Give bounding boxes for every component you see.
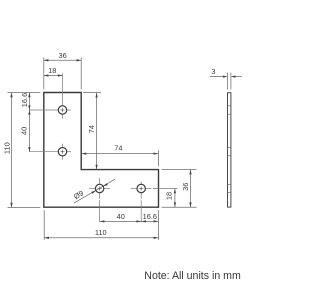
svg-text:16.6: 16.6 <box>143 212 157 221</box>
plate outline L-shape front view <box>44 93 159 208</box>
svg-text:110: 110 <box>95 228 107 237</box>
svg-text:18: 18 <box>165 192 174 200</box>
svg-text:36: 36 <box>181 183 190 191</box>
hole H2 center lines <box>29 144 71 160</box>
hole H3 center lines <box>89 178 110 222</box>
dimension 16.6 bottom <box>141 212 158 223</box>
svg-text:74: 74 <box>87 125 96 133</box>
dimension 40 bottom <box>100 212 141 223</box>
dimension 3 thickness <box>210 67 242 78</box>
hole H2 <box>58 148 66 156</box>
svg-text:3: 3 <box>211 67 215 76</box>
hole H1 center lines <box>29 73 71 118</box>
dimension 110 left <box>2 93 12 208</box>
dimension 36 right <box>181 170 192 207</box>
svg-text:36: 36 <box>58 51 66 60</box>
dimension 74 horizontal <box>82 144 159 155</box>
dimension 110 bottom <box>44 228 158 239</box>
extension lines thickness <box>228 73 231 90</box>
svg-text:110: 110 <box>2 142 11 154</box>
side view plate section <box>228 93 231 207</box>
dimension 18 top <box>44 66 63 77</box>
dimension 74 vertical <box>87 93 98 169</box>
hole H4 center lines <box>131 182 178 223</box>
svg-text:16.6: 16.6 <box>20 93 29 107</box>
dimension 16.6 left <box>20 93 31 110</box>
dimension 36 top <box>44 51 81 62</box>
dimension 18 right <box>165 189 176 207</box>
svg-text:40: 40 <box>117 212 125 221</box>
svg-text:18: 18 <box>48 66 56 75</box>
dimension 40 left <box>20 110 31 152</box>
side view hole edge lines <box>228 106 231 193</box>
diameter leader line through hole H3 <box>74 179 115 203</box>
extension lines top <box>44 58 81 90</box>
hole H4 <box>137 184 145 192</box>
extension line for vertical 74 <box>83 92 101 94</box>
hole H3 <box>95 184 103 192</box>
extension lines bottom <box>44 210 158 240</box>
extension lines left <box>8 93 41 208</box>
svg-text:40: 40 <box>20 127 29 135</box>
svg-text:Note: All units in mm: Note: All units in mm <box>144 270 241 282</box>
extension lines right <box>162 170 197 208</box>
extension line for horizontal 74 <box>157 150 159 166</box>
hole H1 <box>58 106 66 114</box>
svg-text:74: 74 <box>114 144 122 153</box>
